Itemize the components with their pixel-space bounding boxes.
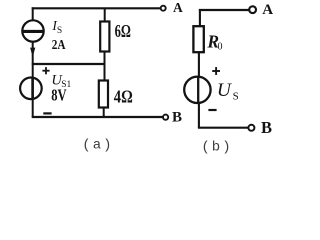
svg-text:(b): (b) [201, 139, 232, 155]
svg-text:2A: 2A [52, 38, 67, 53]
voltage source US1 circle [20, 78, 42, 100]
voltage source US circle [184, 77, 210, 103]
svg-text:8V: 8V [51, 86, 66, 105]
terminal A of circuit (a) [161, 6, 166, 11]
terminal B of circuit (b) [248, 125, 254, 131]
svg-text:0: 0 [218, 42, 223, 53]
svg-text:B: B [261, 118, 272, 137]
label IS [51, 18, 62, 36]
wire between R0 and US (b) [198, 52, 200, 77]
current source IS circle [22, 20, 43, 41]
label R0 [206, 32, 222, 53]
wire middle horizontal wire (a) [32, 63, 105, 65]
wire between 6-ohm and 4-ohm resistors [104, 52, 106, 81]
wire from top wire to R0 (b) [199, 9, 201, 27]
svg-text:A: A [173, 0, 183, 15]
wire left branch upper stub (a) [32, 7, 34, 20]
svg-text:S: S [57, 26, 62, 36]
current source horizontal bar [23, 30, 43, 33]
wire top wire of circuit (a) [32, 7, 161, 9]
current direction arrow [30, 48, 35, 57]
svg-text:S: S [233, 90, 239, 102]
svg-text:A: A [262, 2, 273, 18]
svg-text:4Ω: 4Ω [114, 87, 133, 107]
wire below 4-ohm resistor [103, 107, 105, 117]
voltage source US1 internal bar [31, 78, 34, 99]
plus sign of US [212, 67, 220, 75]
minus sign of US1 [43, 112, 51, 114]
plus sign of US1 [42, 67, 49, 74]
label US1 [51, 73, 71, 91]
resistor 4-ohm body [99, 81, 108, 108]
resistor R0 body [193, 26, 203, 52]
label US [217, 80, 239, 102]
svg-text:6Ω: 6Ω [115, 21, 131, 41]
svg-text:B: B [172, 109, 182, 125]
wire top wire of circuit (b) [199, 9, 249, 11]
terminal B of circuit (a) [163, 115, 168, 120]
wire left branch with current arrow (a) [32, 42, 34, 118]
wire bottom wire of circuit (a) [32, 116, 163, 118]
wire bottom wire of circuit (b) [198, 127, 249, 129]
terminal A of circuit (b) [249, 6, 256, 13]
wire stub from top wire to 6-ohm resistor [104, 8, 106, 21]
resistor 6-ohm body [100, 22, 109, 52]
svg-text:U: U [217, 80, 232, 101]
wire below US to bottom (b) [198, 103, 200, 128]
svg-text:(a): (a) [82, 138, 113, 154]
minus sign of US [208, 109, 216, 111]
voltage source US internal bar [197, 77, 199, 103]
